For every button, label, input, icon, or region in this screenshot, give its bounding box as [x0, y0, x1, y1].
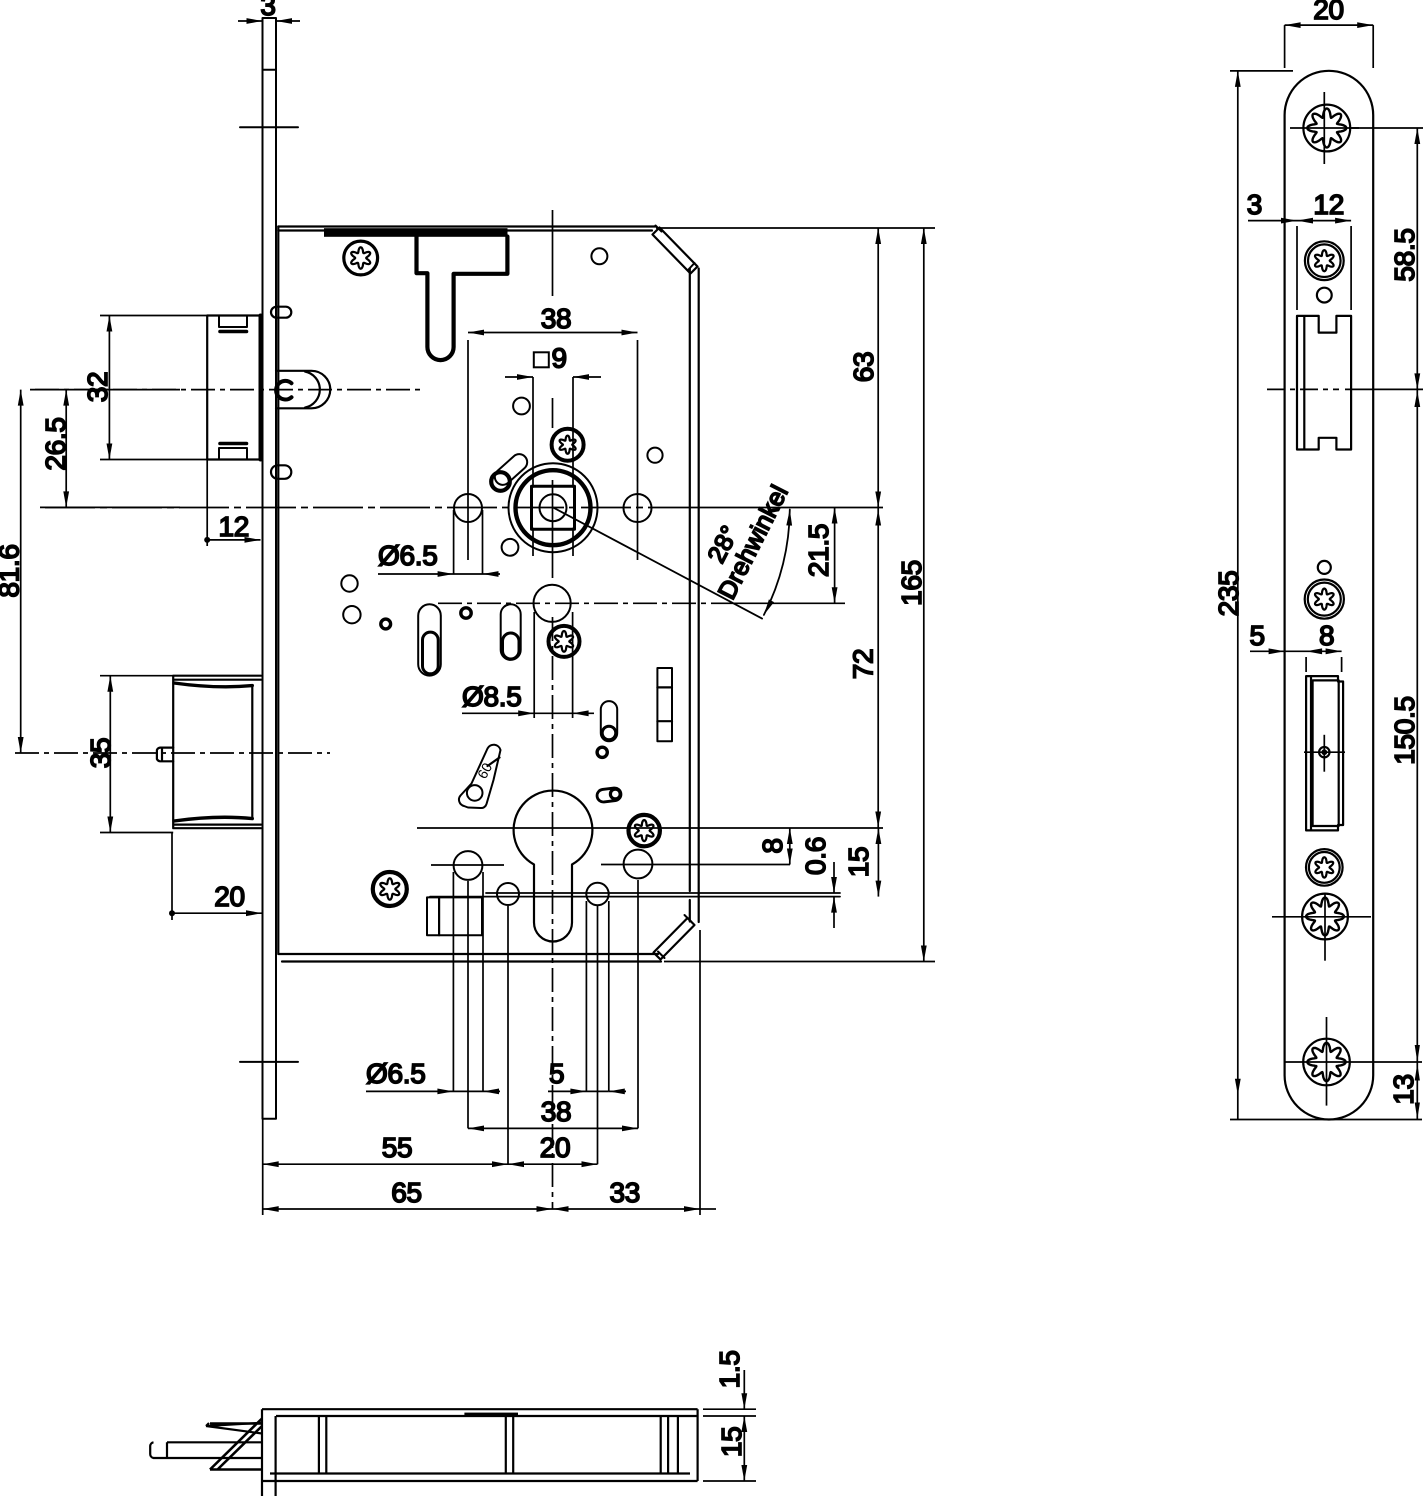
- stop block: [427, 897, 482, 935]
- svg-text:3: 3: [260, 0, 275, 21]
- center cross bottom screw: [1326, 1017, 1328, 1106]
- svg-text:8: 8: [757, 838, 788, 853]
- cover plate edge lines (0.6): [430, 893, 840, 897]
- svg-text:38: 38: [541, 303, 572, 334]
- svg-text:0.6: 0.6: [800, 837, 831, 875]
- dim 15 bottom view: [703, 1480, 756, 1482]
- svg-text:38: 38: [541, 1096, 572, 1127]
- rivet left: [381, 619, 391, 629]
- svg-text:15: 15: [843, 847, 874, 878]
- hub axis: [45, 507, 690, 509]
- pin capsule right of cylinder: [596, 787, 621, 802]
- fixing hole left (Ø6.5): [454, 494, 482, 522]
- Drehwinkel indicator line: [554, 508, 763, 619]
- latch axis right view: [1267, 388, 1339, 390]
- label 28 Drehwinkel: [786, 510, 792, 526]
- dim 65: [263, 1208, 553, 1210]
- svg-text:58.5: 58.5: [1389, 228, 1420, 281]
- faceplate clip bottom: [271, 465, 291, 479]
- slotted link near hub: [492, 451, 531, 488]
- dim 58.5: [1349, 127, 1423, 129]
- svg-text:21.5: 21.5: [803, 524, 834, 577]
- svg-text:20: 20: [1313, 0, 1344, 25]
- bottom-right chamfer flap: [654, 918, 695, 960]
- svg-text:13: 13: [1388, 1074, 1419, 1105]
- square column lines: [532, 377, 534, 488]
- dim 235: [1230, 70, 1293, 72]
- svg-text:15: 15: [716, 1427, 747, 1458]
- deadbolt: [173, 676, 261, 829]
- big screw bottom (8-lobe): [1303, 1039, 1350, 1086]
- spindle hub: [509, 463, 598, 552]
- latch bolt housing: [207, 316, 259, 460]
- svg-text:33: 33: [610, 1177, 641, 1208]
- screw right of cylinder: [629, 815, 660, 846]
- rivet mid: [461, 608, 471, 618]
- fixing hole bottom right (Ø6.5): [624, 850, 653, 879]
- deadbolt axis: [15, 752, 330, 754]
- bottom view faceplate bar: [262, 1409, 276, 1496]
- rivet below oval3: [597, 747, 607, 757]
- cylinder screw hole right: [586, 883, 608, 905]
- svg-text:235: 235: [1213, 571, 1244, 617]
- dim 32: [100, 315, 207, 317]
- svg-text:12: 12: [1313, 189, 1344, 220]
- dim 12: [206, 460, 208, 547]
- center cross top screw: [1323, 92, 1325, 164]
- Drehwinkel arc: [764, 510, 790, 615]
- svg-text:150.5: 150.5: [1389, 696, 1420, 765]
- svg-text:26.5: 26.5: [40, 417, 71, 470]
- screw with ring mid: [1305, 580, 1344, 619]
- svg-text:Ø6.5: Ø6.5: [378, 540, 438, 571]
- svg-text:5: 5: [549, 1058, 564, 1089]
- bolt axis right view: [1304, 751, 1345, 753]
- dim 21.5: [834, 508, 836, 604]
- svg-text:8: 8: [1319, 620, 1334, 651]
- faceplate clip top: [271, 307, 291, 318]
- retainer bar (bold): [324, 228, 508, 237]
- screw with ring upper: [1305, 241, 1344, 280]
- svg-text:35: 35: [85, 738, 116, 769]
- svg-text:63: 63: [848, 352, 879, 383]
- hole center line y865: [431, 864, 504, 866]
- dim 13: [1416, 1062, 1418, 1120]
- dim 5 bottom: [548, 1090, 609, 1092]
- screw below hub: [549, 626, 580, 657]
- screw above hub: [552, 429, 584, 461]
- bottom extension lines: [452, 872, 454, 1091]
- small circle pair left: [341, 575, 357, 591]
- deadbolt pin: [157, 748, 173, 762]
- svg-text:20: 20: [540, 1132, 571, 1163]
- svg-text:12: 12: [219, 511, 250, 542]
- cylinder axis: [417, 827, 883, 829]
- latch bolt head: [276, 371, 330, 409]
- small hole mid: [1318, 561, 1331, 574]
- faceplate edge view: [263, 18, 277, 1119]
- hole below hub small: [502, 539, 519, 556]
- dim 5 and 8 plate: [1250, 650, 1285, 652]
- dim 1.5 bottom view: [703, 1408, 756, 1410]
- dim 165: [664, 961, 935, 963]
- latch axis: [35, 389, 422, 391]
- svg-text:81.6: 81.6: [0, 544, 25, 597]
- dim 33: [553, 1208, 701, 1210]
- dim 55: [263, 1163, 508, 1165]
- screw with ring lower: [1306, 849, 1343, 886]
- screw bottom-left: [373, 872, 407, 906]
- dim 20 deadbolt: [171, 833, 173, 921]
- lock case outline: [278, 227, 656, 231]
- fixing hole bottom left (Ø6.5): [454, 851, 483, 880]
- svg-text:3: 3: [1247, 189, 1262, 220]
- center cross mid screw: [1324, 893, 1326, 960]
- dim 3 and 12 plate: [1248, 220, 1297, 222]
- hole left of square: [513, 398, 530, 415]
- latch opening: [1297, 316, 1351, 450]
- bottom view internal lines: [319, 1416, 678, 1474]
- change lever 60: [459, 745, 501, 808]
- dim 38 bottom: [468, 1127, 638, 1129]
- svg-text:165: 165: [896, 560, 927, 606]
- bottom view case: [262, 1409, 698, 1481]
- T-shaped nut guide (bold): [417, 237, 508, 361]
- dim 20: [508, 1163, 598, 1165]
- svg-text:72: 72: [848, 649, 879, 680]
- dim 15: [877, 828, 879, 897]
- dim 9 square: [534, 352, 549, 367]
- slot oval 1: [418, 604, 441, 675]
- dim Ø6.5 bottom: [366, 1090, 483, 1092]
- svg-text:5: 5: [1250, 620, 1265, 651]
- big screw mid (8-lobe): [1302, 894, 1348, 940]
- svg-text:Ø6.5: Ø6.5: [366, 1058, 426, 1089]
- dim 26.5: [40, 506, 180, 508]
- dim 63: [656, 227, 935, 229]
- svg-text:1.5: 1.5: [714, 1350, 745, 1388]
- svg-text:32: 32: [82, 372, 113, 403]
- slot oval 3: [601, 701, 617, 741]
- screw top-left: [344, 241, 378, 275]
- dim 150.5: [1284, 1061, 1423, 1063]
- dim Ø8.5: [533, 612, 535, 718]
- fixing hole right (Ø6.5): [624, 494, 652, 522]
- bottom view latch: [206, 1423, 262, 1434]
- slot oval 2: [501, 604, 521, 660]
- faceplate front outline: [1285, 71, 1374, 1120]
- svg-text:65: 65: [391, 1177, 422, 1208]
- hole right edge small: [647, 448, 662, 463]
- dim 81.6: [20, 390, 22, 753]
- dim 8: [789, 828, 791, 865]
- dim 3: [238, 20, 263, 22]
- stulp slot: [657, 668, 672, 741]
- bolt opening: [1306, 676, 1343, 830]
- svg-text:Ø8.5: Ø8.5: [462, 681, 522, 712]
- dim 72: [875, 510, 881, 526]
- latch housing bottom notch: [219, 448, 247, 460]
- hole top right small: [591, 248, 607, 264]
- top screw (8-lobe): [1303, 105, 1350, 152]
- svg-text:9: 9: [552, 343, 567, 374]
- vertical center line x552.5: [552, 210, 554, 296]
- top-right chamfer flap: [653, 228, 698, 274]
- dim Ø6.5 top: [453, 510, 455, 574]
- hole Ø8.5: [534, 585, 571, 622]
- secondary axis y603: [438, 602, 718, 604]
- cylinder screw hole left: [497, 883, 519, 905]
- svg-text:55: 55: [382, 1132, 413, 1163]
- latch spring hook: [276, 381, 291, 400]
- svg-text:20: 20: [214, 881, 245, 912]
- dim 20 plate: [1284, 25, 1286, 68]
- dim 35: [100, 675, 173, 677]
- dim 38 top: [467, 340, 469, 560]
- latch housing top notch: [219, 316, 247, 328]
- euro profile cylinder hole: [514, 791, 593, 942]
- dim 0.6: [833, 862, 835, 893]
